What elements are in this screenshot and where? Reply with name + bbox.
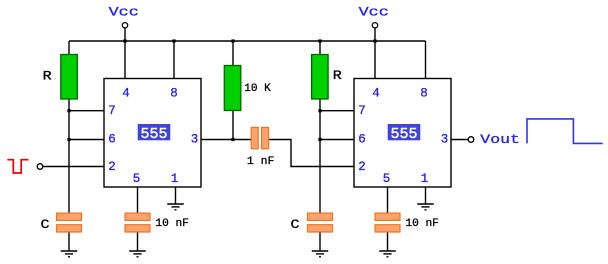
junction R1-pin6 xyxy=(67,138,70,141)
op-amp U1 555 xyxy=(104,79,201,188)
wire U1 pin5 lead xyxy=(137,187,139,213)
op-amp U2 555 xyxy=(354,79,451,188)
capacitor 1nF xyxy=(247,127,275,167)
capacitor 10nF #1 xyxy=(125,213,189,232)
wire U2 pin7 xyxy=(320,110,354,112)
svg-text:R: R xyxy=(43,69,52,84)
svg-text:4: 4 xyxy=(122,87,130,101)
svg-text:555: 555 xyxy=(390,126,417,143)
wire R1 bottom to C1 xyxy=(68,99,70,213)
wire R2 top lead xyxy=(319,41,321,55)
svg-text:R: R xyxy=(333,68,342,83)
node Vout xyxy=(468,132,520,147)
power Vcc right xyxy=(359,5,389,28)
junction rail-10K xyxy=(231,39,234,42)
wire 10nF-2 to ground xyxy=(387,232,389,251)
wire U1 pin7 xyxy=(69,110,104,112)
wire U2 pin3 out xyxy=(451,139,468,141)
junction R2-pin7 xyxy=(318,109,321,112)
resistor R1 xyxy=(43,55,78,100)
capacitor 10nF #2 xyxy=(375,213,439,232)
svg-text:10 nF: 10 nF xyxy=(405,218,439,230)
wire U2 pin5 lead xyxy=(387,187,389,213)
wire U2 pin4 lead xyxy=(374,28,376,79)
wire R1 top lead xyxy=(68,41,70,55)
svg-text:Vcc: Vcc xyxy=(109,5,139,20)
svg-text:5: 5 xyxy=(133,172,141,186)
wire C1 to ground xyxy=(68,232,70,251)
junction rail-pin8 U1 xyxy=(172,39,175,42)
svg-text:4: 4 xyxy=(372,87,380,101)
svg-text:2: 2 xyxy=(108,160,116,174)
svg-text:2: 2 xyxy=(358,160,366,174)
ground 10nF #1 xyxy=(129,251,146,257)
capacitor C1 xyxy=(41,213,82,232)
wire U2 pin1 lead xyxy=(425,187,427,204)
resistor R2 xyxy=(312,55,342,100)
svg-text:10 K: 10 K xyxy=(244,83,271,95)
svg-text:1: 1 xyxy=(421,172,429,186)
junction rail-Vcc2 xyxy=(373,39,376,42)
wire R2 bottom to C2 xyxy=(319,99,321,213)
svg-text:10 nF: 10 nF xyxy=(155,218,189,230)
ground 10nF #2 xyxy=(379,251,396,257)
svg-text:555: 555 xyxy=(140,126,167,143)
wire U1 pin6 xyxy=(69,139,104,141)
wire U2 pin6 xyxy=(320,139,354,141)
wire input to U1 pin2 xyxy=(43,166,104,168)
ground C2 xyxy=(312,251,329,257)
power Vcc left xyxy=(109,5,139,28)
svg-text:Vout: Vout xyxy=(480,132,520,147)
junction rail-pin4 U1 xyxy=(123,39,126,42)
wire U2 pin8 lead xyxy=(425,41,427,79)
svg-text:1: 1 xyxy=(171,172,179,186)
svg-text:3: 3 xyxy=(191,133,199,147)
wire 10nF-1 to ground xyxy=(137,232,139,251)
svg-text:C: C xyxy=(291,217,300,232)
wire U1 pin8 lead xyxy=(173,41,175,79)
svg-text:8: 8 xyxy=(170,87,178,101)
wire C2 to ground xyxy=(319,232,321,251)
ground U2 pin1 xyxy=(417,204,434,210)
ground C1 xyxy=(61,251,78,257)
capacitor C2 xyxy=(291,213,333,232)
svg-text:8: 8 xyxy=(420,87,428,101)
junction rail-R2 xyxy=(318,39,321,42)
svg-text:C: C xyxy=(41,217,50,232)
svg-text:1 nF: 1 nF xyxy=(247,156,275,168)
svg-text:3: 3 xyxy=(441,133,449,147)
wire 10K bottom lead xyxy=(232,111,234,140)
svg-text:6: 6 xyxy=(108,133,116,147)
junction R1-pin7 xyxy=(67,109,70,112)
junction 10K-pin3 xyxy=(231,138,234,141)
resistor 10K xyxy=(224,66,271,111)
svg-text:5: 5 xyxy=(383,172,391,186)
wire 10K top lead xyxy=(232,41,234,66)
wire U1 pin4 lead xyxy=(124,28,126,79)
wire U1 pin1 lead xyxy=(175,187,177,204)
wire U1 pin3 out xyxy=(201,139,251,141)
svg-text:7: 7 xyxy=(108,104,116,118)
svg-text:6: 6 xyxy=(358,133,366,147)
svg-text:7: 7 xyxy=(358,104,366,118)
input pulse source xyxy=(7,160,43,173)
waveform Vout xyxy=(527,119,603,143)
svg-text:Vcc: Vcc xyxy=(359,5,389,20)
wire Vcc rail xyxy=(69,40,426,42)
junction R2-pin6 xyxy=(318,138,321,141)
wire 1nF to U2 pin2 xyxy=(269,140,354,167)
ground U1 pin1 xyxy=(167,204,184,210)
